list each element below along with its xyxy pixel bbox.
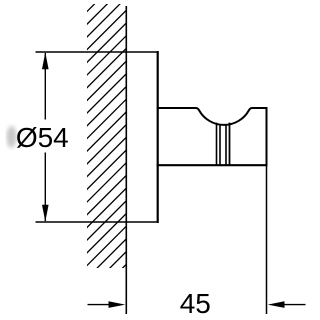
svg-text:Ø54: Ø54 <box>16 122 69 153</box>
svg-text:45: 45 <box>180 288 211 319</box>
